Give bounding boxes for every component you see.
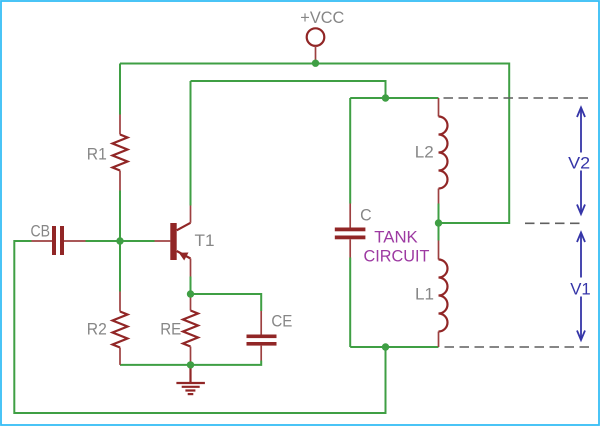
wire emitter vertical [190, 277, 192, 295]
svg-text:CB: CB [31, 221, 51, 240]
dashed line bottom [445, 346, 592, 348]
svg-text:+VCC: +VCC [300, 8, 344, 27]
svg-text:R1: R1 [87, 144, 107, 163]
junction tank bottom [382, 343, 389, 350]
wire R1 bottom to R2 top [119, 191, 121, 292]
junction emitter node [187, 290, 194, 297]
dashed line top [444, 97, 591, 99]
svg-text:TANK: TANK [374, 227, 418, 246]
capacitor CE [247, 311, 277, 361]
wire emitter node to CE [191, 294, 262, 311]
svg-text:L2: L2 [415, 143, 434, 162]
svg-text:V1: V1 [570, 280, 591, 299]
dashed line middle [525, 222, 584, 224]
ground [176, 365, 205, 394]
transistor T1 [155, 206, 191, 277]
svg-text:T1: T1 [195, 231, 215, 250]
svg-text:CE: CE [271, 312, 292, 331]
resistor RE [183, 294, 198, 365]
junction tank top [382, 94, 389, 101]
resistor R1 [113, 115, 128, 191]
arrow V1 [577, 233, 585, 341]
wire L1 top green [438, 223, 440, 241]
junction VCC rail [312, 60, 319, 67]
wire feedback loop left and bottom [14, 241, 385, 413]
svg-text:CIRCUIT: CIRCUIT [364, 246, 430, 265]
resistor R2 [113, 292, 128, 365]
svg-text:L1: L1 [415, 285, 434, 304]
junction ground node [187, 361, 194, 368]
capacitor CB [32, 226, 86, 255]
wire tank left top [349, 98, 351, 204]
wire tank bottom [350, 346, 438, 348]
junction base node [116, 237, 123, 244]
wire base node [86, 240, 155, 242]
wire tank left bottom [349, 258, 351, 348]
wire R1 top [119, 64, 121, 115]
wire bottom emitter rail [120, 361, 261, 365]
inductor L2 [439, 98, 448, 204]
svg-text:RE: RE [160, 320, 181, 339]
svg-text:R2: R2 [87, 320, 107, 339]
wire collector vertical [190, 81, 192, 206]
power +VCC symbol [300, 8, 344, 63]
wire L2 bottom green [438, 204, 440, 224]
svg-text:C: C [360, 205, 372, 224]
arrow V2 [577, 108, 585, 215]
svg-text:V2: V2 [568, 154, 590, 173]
junction tank middle [435, 219, 442, 226]
inductor L1 [439, 241, 448, 348]
wire tank top [350, 97, 438, 99]
wire collector to tank top [191, 81, 386, 98]
label TANK CIRCUIT [364, 227, 430, 265]
capacitor C tank [335, 204, 366, 258]
wire top rail VCC to right side [120, 64, 509, 224]
